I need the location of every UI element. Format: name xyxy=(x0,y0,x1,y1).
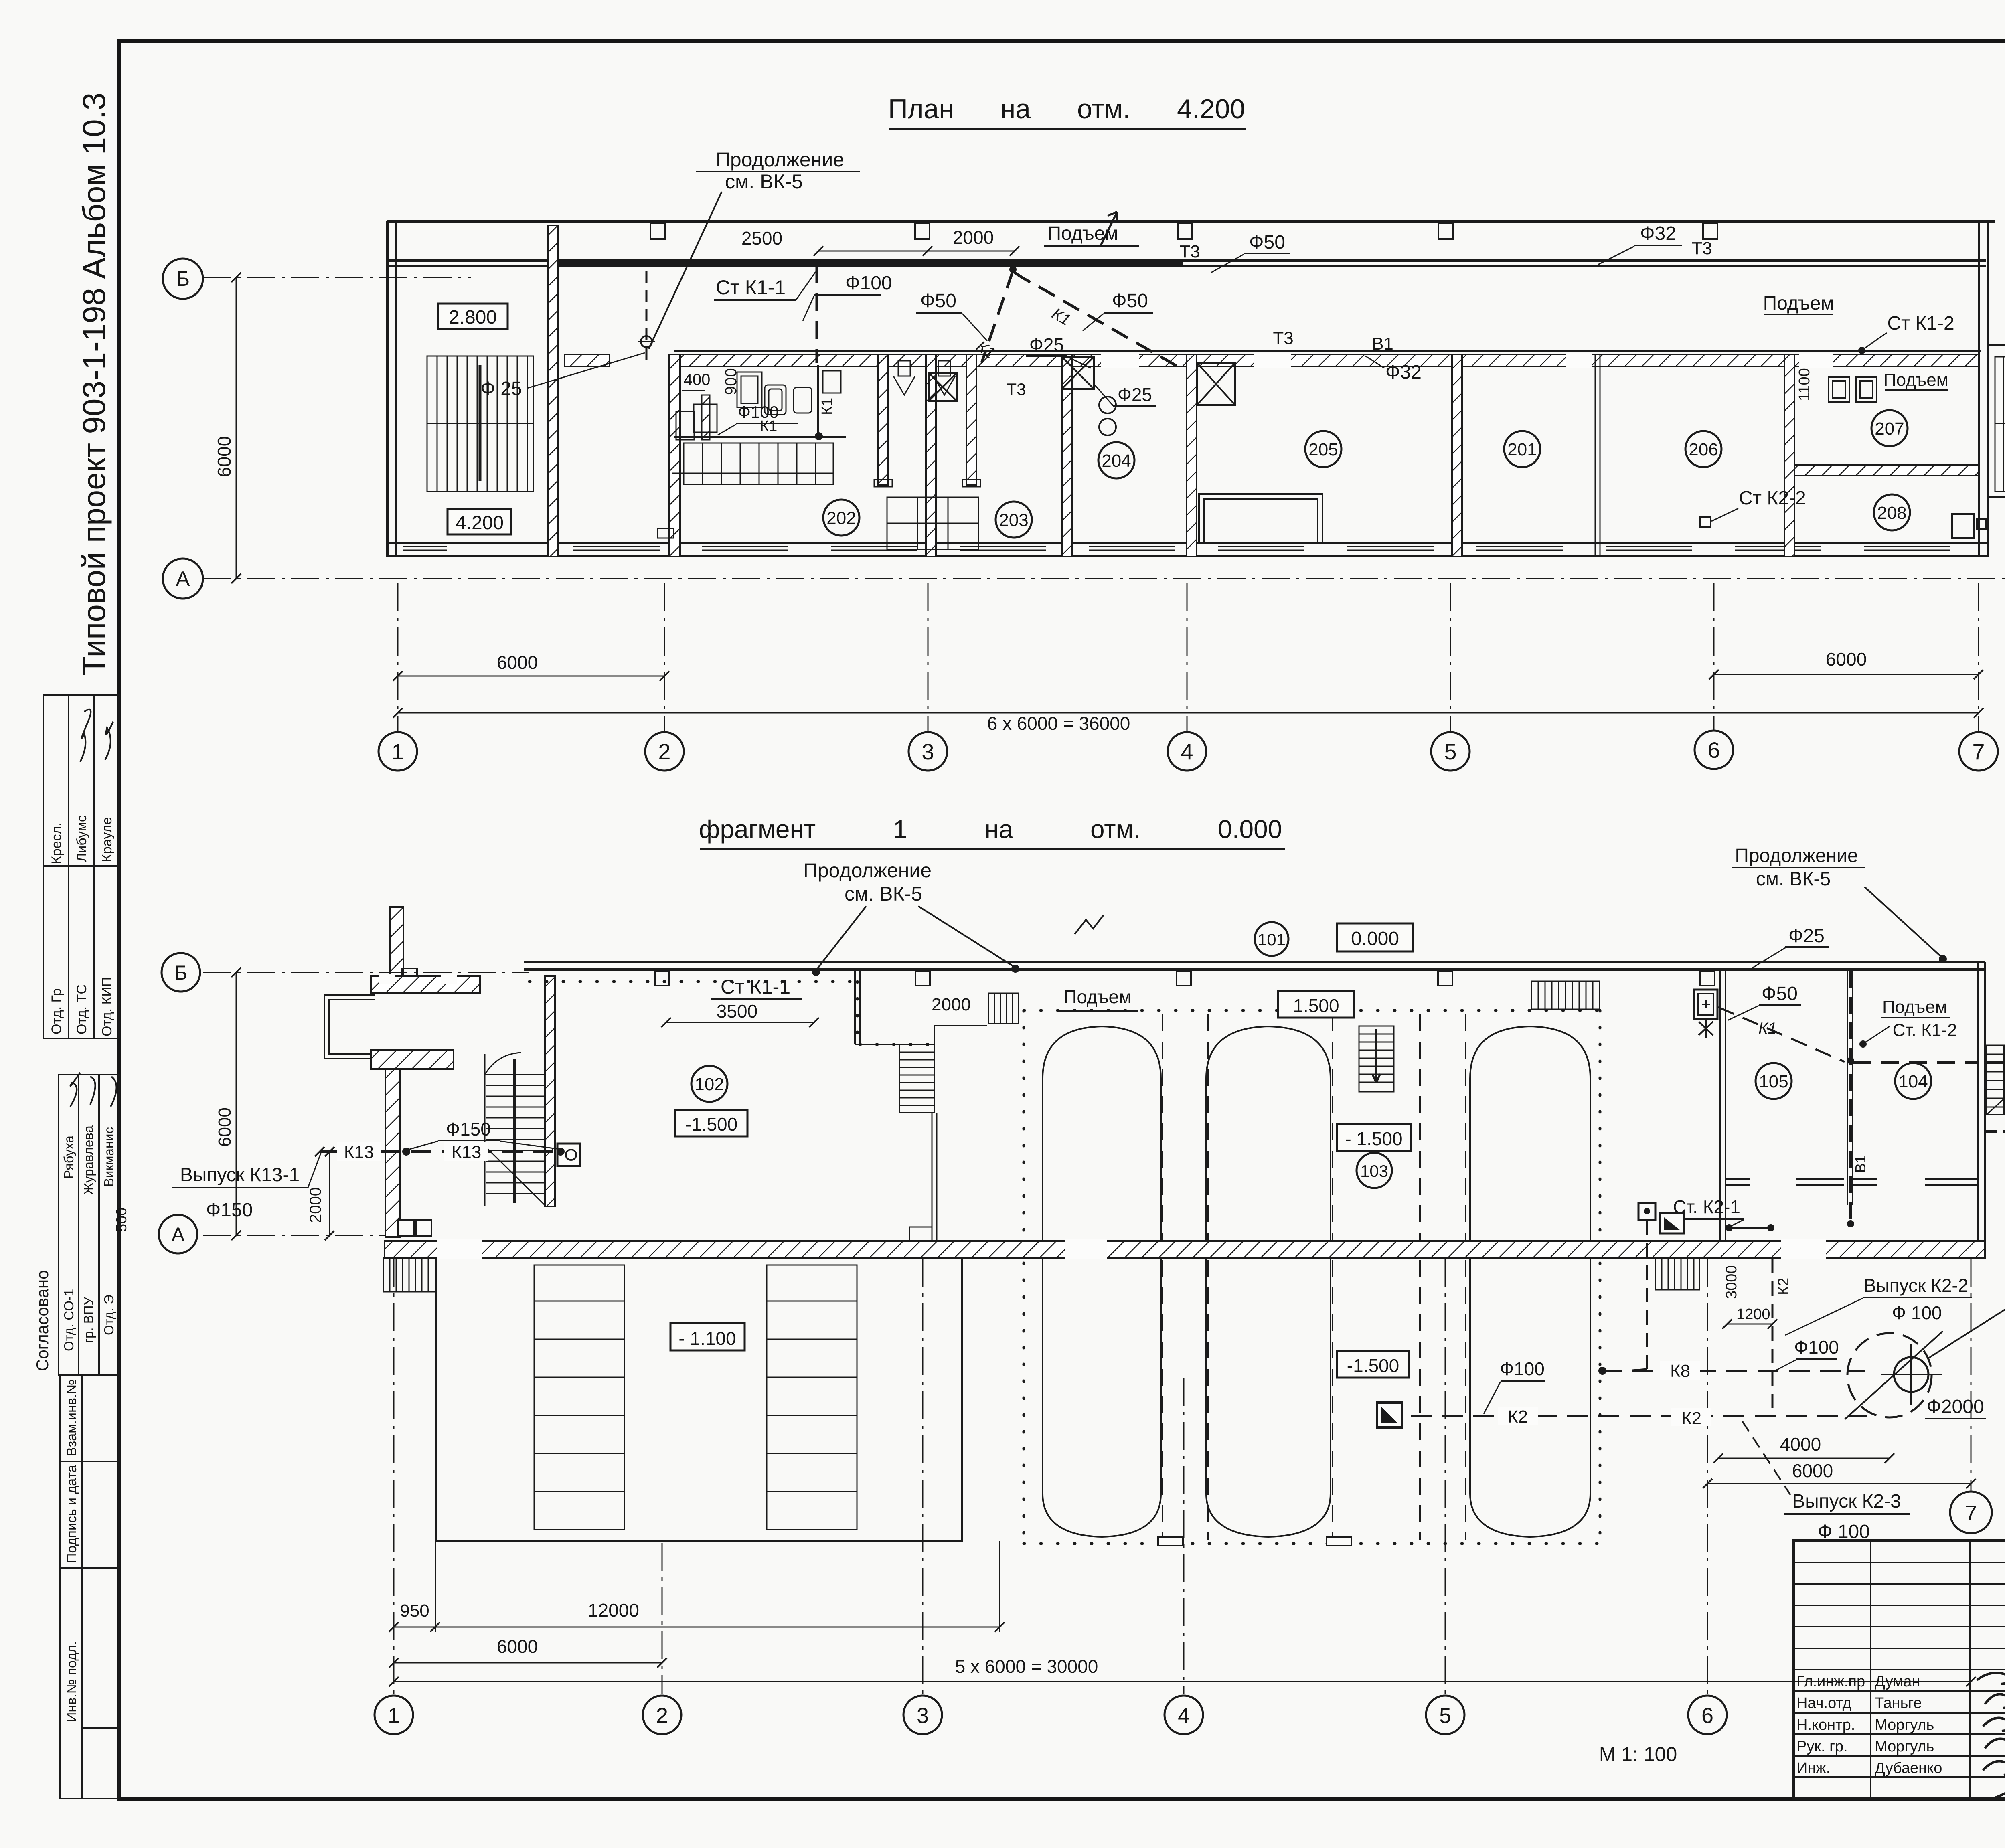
svg-text:Ф50: Ф50 xyxy=(1762,983,1798,1004)
svg-text:3: 3 xyxy=(917,1704,929,1728)
svg-text:3000: 3000 xyxy=(1723,1265,1740,1299)
svg-text:Отд. ТС: Отд. ТС xyxy=(74,984,89,1034)
svg-text:Ф50: Ф50 xyxy=(1249,232,1285,253)
left margin: Согласовано section xyxy=(59,1075,119,1375)
svg-text:-1.500: -1.500 xyxy=(1347,1355,1399,1376)
svg-text:Журавлева: Журавлева xyxy=(81,1125,96,1195)
svg-text:Моргуль: Моргуль xyxy=(1875,1716,1934,1733)
svg-text:Инв.№ подл.: Инв.№ подл. xyxy=(64,1641,79,1722)
elevation boxes / room labels lower plan xyxy=(1255,922,1288,956)
svg-text:Т3: Т3 xyxy=(1691,239,1712,258)
svg-text:203: 203 xyxy=(999,510,1028,530)
svg-text:Продолжение: Продолжение xyxy=(1735,845,1858,866)
svg-text:Кресл.: Кресл. xyxy=(49,822,64,864)
svg-text:-1.500: -1.500 xyxy=(685,1114,737,1135)
svg-text:500: 500 xyxy=(113,1208,130,1232)
dashed verticals between tanks xyxy=(1162,1014,1466,1540)
column tabs on top wall xyxy=(650,223,1717,239)
svg-text:207: 207 xyxy=(1875,419,1904,439)
svg-text:Ф25: Ф25 xyxy=(1029,334,1064,355)
sink fixture room 105 corner xyxy=(1694,990,1717,1038)
svg-text:1: 1 xyxy=(388,1704,400,1728)
left margin: bottom strip Взам.инв / Подпись / Инв xyxy=(60,1375,119,1799)
svg-text:105: 105 xyxy=(1759,1072,1788,1091)
svg-text:Дубаенко: Дубаенко xyxy=(1875,1760,1942,1777)
svg-text:см. ВК-5: см. ВК-5 xyxy=(725,170,803,193)
svg-text:1.500: 1.500 xyxy=(1293,995,1339,1016)
svg-text:5 x 6000 = 30000: 5 x 6000 = 30000 xyxy=(955,1656,1098,1677)
svg-text:- 1.100: - 1.100 xyxy=(678,1328,736,1349)
svg-text:К13: К13 xyxy=(344,1142,374,1162)
svg-text:Б: Б xyxy=(174,961,188,984)
svg-text:2.800: 2.800 xyxy=(449,307,497,328)
svg-text:Т3: Т3 xyxy=(1179,242,1200,261)
svg-text:6 x 6000 = 36000: 6 x 6000 = 36000 xyxy=(987,713,1130,734)
dotted pit edges xyxy=(529,982,1600,1544)
axis circles lower plan xyxy=(375,1696,1727,1734)
signature squiggles xyxy=(1977,1668,2005,1798)
svg-text:М 1: 100: М 1: 100 xyxy=(1599,1743,1677,1765)
svg-text:204: 204 xyxy=(1102,451,1131,471)
svg-text:3500: 3500 xyxy=(717,1001,757,1022)
svg-text:Выпуск К2-3: Выпуск К2-3 xyxy=(1792,1491,1901,1512)
svg-text:206: 206 xyxy=(1689,440,1718,459)
svg-text:Ф2000: Ф2000 xyxy=(1926,1396,1984,1417)
dims near well xyxy=(1718,1458,1890,1459)
interior stair lower-left xyxy=(485,1053,545,1206)
svg-text:Ф100: Ф100 xyxy=(738,403,779,421)
svg-text:Ст К2-2: Ст К2-2 xyxy=(1739,488,1806,509)
svg-text:К2: К2 xyxy=(1508,1407,1528,1427)
svg-text:- 1.500: - 1.500 xyxy=(1345,1128,1402,1149)
axes top plan xyxy=(203,277,2005,731)
svg-text:Нач.отд: Нач.отд xyxy=(1796,1695,1851,1712)
svg-text:Отд. СО-1: Отд. СО-1 xyxy=(61,1289,76,1351)
bottom dims lower plan xyxy=(435,1541,436,1632)
sinks on wall xyxy=(398,1220,414,1236)
axes lower plan xyxy=(203,972,1971,1694)
svg-text:Думан: Думан xyxy=(1875,1673,1920,1690)
svg-text:Гл.инж.пр: Гл.инж.пр xyxy=(1796,1673,1865,1690)
svg-text:Согласовано: Согласовано xyxy=(33,1270,52,1371)
svg-text:6000: 6000 xyxy=(1826,649,1867,670)
svg-text:Ст К1-2: Ст К1-2 xyxy=(1887,313,1954,334)
svg-text:Подъем: Подъем xyxy=(1882,997,1947,1017)
svg-text:205: 205 xyxy=(1308,440,1338,459)
svg-text:К2: К2 xyxy=(1775,1278,1792,1295)
svg-text:А: А xyxy=(171,1223,185,1246)
svg-text:В1: В1 xyxy=(1852,1155,1869,1173)
svg-text:6: 6 xyxy=(1701,1704,1713,1728)
drain fixtures below room 105 xyxy=(1638,1203,1655,1220)
vertical K2 riser near stair xyxy=(1772,1259,1774,1415)
svg-text:Продолжение: Продолжение xyxy=(716,148,844,171)
svg-text:7: 7 xyxy=(1972,739,1985,764)
left porch xyxy=(390,907,403,976)
window strips in bottom wall xyxy=(403,547,1950,550)
svg-text:1: 1 xyxy=(391,739,404,764)
svg-text:4000: 4000 xyxy=(1780,1434,1821,1455)
svg-text:2000: 2000 xyxy=(953,227,994,248)
svg-text:см. ВК-5: см. ВК-5 xyxy=(845,883,922,905)
elevation boxes xyxy=(438,304,508,329)
washbasins room 204 xyxy=(1099,397,1116,413)
fixtures rooms 207/208 xyxy=(1829,377,1986,538)
well for H2SO4 xyxy=(1847,1333,1932,1417)
vent shaft with cross xyxy=(929,357,1235,405)
signature squiggles upper table xyxy=(80,710,91,762)
small pipe runs in toilet area xyxy=(674,436,814,438)
interior partitions xyxy=(548,225,1979,557)
svg-text:Т3: Т3 xyxy=(1006,380,1026,399)
svg-text:Таньге: Таньге xyxy=(1875,1695,1922,1712)
svg-text:Либумс: Либумс xyxy=(74,815,89,862)
left stairwell xyxy=(427,356,533,492)
floor drain fixture xyxy=(557,1144,580,1166)
svg-text:0.000: 0.000 xyxy=(1351,928,1399,949)
svg-text:2: 2 xyxy=(656,1704,668,1728)
svg-text:Отд. КИП: Отд. КИП xyxy=(99,977,115,1036)
basin block below band xyxy=(436,1258,962,1541)
svg-text:Продолжение: Продолжение xyxy=(803,859,932,882)
svg-text:Б: Б xyxy=(176,267,190,291)
svg-text:1200: 1200 xyxy=(1736,1306,1770,1323)
low partition room 205 xyxy=(1199,494,1322,542)
svg-text:Ф50: Ф50 xyxy=(1112,290,1148,312)
svg-text:Моргуль: Моргуль xyxy=(1875,1738,1934,1755)
svg-text:201: 201 xyxy=(1507,440,1537,459)
svg-text:Рук. гр.: Рук. гр. xyxy=(1796,1738,1848,1755)
svg-text:Ф25: Ф25 xyxy=(1118,384,1152,405)
svg-text:Ф32: Ф32 xyxy=(1385,362,1422,383)
svg-text:Типовой проект 903-1-198 А: Типовой проект 903-1-198 Альбом 10.3 xyxy=(76,93,112,676)
niche walls room 101 entry xyxy=(855,970,987,1044)
svg-text:6000: 6000 xyxy=(214,436,235,477)
svg-text:6000: 6000 xyxy=(215,1107,235,1147)
top plan pipes dashed xyxy=(646,265,1179,367)
svg-text:Ф25: Ф25 xyxy=(1788,925,1825,947)
K1 stack dashed xyxy=(1849,971,1852,1227)
svg-text:2500: 2500 xyxy=(741,228,782,249)
left margin table: departments xyxy=(43,695,119,1038)
svg-text:4: 4 xyxy=(1178,1704,1190,1728)
svg-text:Подъем: Подъем xyxy=(1763,293,1834,314)
svg-text:Ф 25: Ф 25 xyxy=(480,378,522,399)
svg-text:6000: 6000 xyxy=(1792,1460,1833,1481)
right stair annex xyxy=(1988,345,2005,497)
heavy T3 pipe along top wall xyxy=(548,262,1183,266)
svg-text:Ф100: Ф100 xyxy=(1794,1337,1839,1358)
svg-text:К8: К8 xyxy=(1670,1361,1690,1381)
svg-text:Ст К1-1: Ст К1-1 xyxy=(716,276,786,299)
svg-text:Ф 100: Ф 100 xyxy=(1892,1302,1942,1323)
mid ladder xyxy=(1359,1026,1394,1092)
svg-text:Подъем: Подъем xyxy=(1063,986,1131,1007)
svg-text:Ст К1-1: Ст К1-1 xyxy=(721,976,790,998)
svg-text:4: 4 xyxy=(1181,739,1193,764)
svg-text:900: 900 xyxy=(722,368,740,395)
top stair near tanks xyxy=(1531,981,1600,1009)
svg-text:103: 103 xyxy=(1360,1162,1388,1180)
toilet block fixtures xyxy=(658,361,978,549)
svg-text:Ф150: Ф150 xyxy=(446,1119,491,1140)
svg-text:Т3: Т3 xyxy=(1273,328,1293,348)
svg-text:3: 3 xyxy=(921,739,934,764)
corridor hatched wall band xyxy=(565,353,1979,368)
svg-text:Викманис: Викманис xyxy=(101,1127,116,1187)
hatched band along axis A xyxy=(385,1239,1985,1259)
svg-text:1100: 1100 xyxy=(1796,368,1813,401)
svg-text:Отд. Гр: Отд. Гр xyxy=(49,988,64,1034)
svg-text:2000: 2000 xyxy=(932,995,971,1014)
svg-text:Рябуха: Рябуха xyxy=(61,1135,76,1179)
svg-text:Подпись и дата: Подпись и дата xyxy=(64,1465,79,1563)
svg-text:12000: 12000 xyxy=(588,1600,639,1621)
bottom dimension lines top plan xyxy=(398,676,664,677)
svg-text:102: 102 xyxy=(695,1075,724,1094)
svg-text:Ф100: Ф100 xyxy=(1500,1358,1545,1379)
svg-text:К2: К2 xyxy=(1681,1409,1701,1428)
svg-text:Ст. К1-2: Ст. К1-2 xyxy=(1893,1020,1957,1040)
stair below band at K2 xyxy=(1655,1258,1699,1290)
svg-text:6000: 6000 xyxy=(497,1636,538,1657)
building top wall lower plan xyxy=(524,962,1985,970)
svg-text:104: 104 xyxy=(1898,1072,1928,1091)
svg-text:фрагмент 1 на отм. 0.000: фрагмент 1 на отм. 0.000 xyxy=(699,815,1282,844)
svg-text:2: 2 xyxy=(658,739,670,764)
room number circles top plan xyxy=(823,410,1910,538)
svg-text:Подъем: Подъем xyxy=(1883,370,1948,390)
svg-text:6: 6 xyxy=(1707,737,1720,763)
svg-text:2000: 2000 xyxy=(307,1187,324,1223)
axis 7 circle lower plan xyxy=(1950,1492,1992,1533)
svg-text:Ф100: Ф100 xyxy=(845,273,892,294)
svg-text:6000: 6000 xyxy=(497,652,538,673)
corridor pipe line xyxy=(674,350,1981,352)
svg-text:гр. ВПУ: гр. ВПУ xyxy=(81,1297,96,1343)
svg-text:950: 950 xyxy=(400,1601,429,1621)
svg-text:Крауле: Крауле xyxy=(99,817,115,862)
K8 / K2 drain lines xyxy=(1601,1370,1845,1372)
svg-text:Выпуск К2-2: Выпуск К2-2 xyxy=(1864,1275,1968,1296)
small stair below band left xyxy=(383,1258,436,1292)
svg-text:К1: К1 xyxy=(819,398,836,415)
svg-text:см. ВК-5: см. ВК-5 xyxy=(1756,868,1831,890)
dim 2500/2000 inside plan xyxy=(818,251,1015,252)
room 102 xyxy=(691,1066,727,1102)
svg-text:5: 5 xyxy=(1439,1704,1451,1728)
svg-text:Н.контр.: Н.контр. xyxy=(1796,1716,1855,1733)
svg-text:400: 400 xyxy=(684,371,711,389)
svg-text:А: А xyxy=(176,567,190,591)
svg-text:План на отм. 4.200: План на отм. 4.200 xyxy=(888,94,1245,124)
svg-text:208: 208 xyxy=(1877,503,1906,523)
tanks xyxy=(1043,1026,1590,1546)
svg-text:Ф32: Ф32 xyxy=(1640,223,1676,244)
building outline top plan xyxy=(387,221,1995,557)
svg-text:Выпуск К13-1: Выпуск К13-1 xyxy=(180,1164,300,1186)
svg-text:202: 202 xyxy=(826,508,856,528)
svg-text:Взам.инв.№: Взам.инв.№ xyxy=(64,1379,79,1456)
svg-text:101: 101 xyxy=(1258,930,1286,949)
K13 outfall left xyxy=(320,1150,561,1153)
svg-text:Ф150: Ф150 xyxy=(206,1200,253,1221)
svg-text:Инж.: Инж. xyxy=(1796,1760,1830,1777)
svg-text:В1: В1 xyxy=(1372,334,1393,354)
svg-text:К13: К13 xyxy=(452,1142,482,1162)
svg-text:7: 7 xyxy=(1965,1501,1977,1525)
svg-text:4.200: 4.200 xyxy=(456,512,504,534)
svg-text:5: 5 xyxy=(1444,739,1456,764)
axis circles 1..7 top plan xyxy=(379,731,1998,771)
right rooms 105 / 104 xyxy=(1720,962,1985,1241)
svg-text:Ф50: Ф50 xyxy=(920,290,956,312)
svg-text:Отд. Э: Отд. Э xyxy=(101,1295,116,1335)
